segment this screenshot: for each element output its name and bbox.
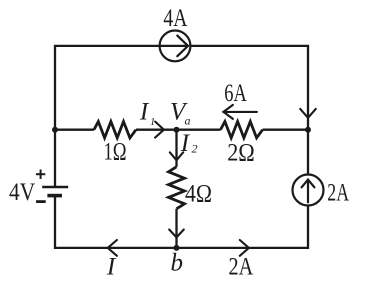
svg-text:2A: 2A <box>229 254 254 281</box>
svg-text:4A: 4A <box>163 5 187 32</box>
svg-text:2A: 2A <box>327 180 349 207</box>
svg-text:1Ω: 1Ω <box>103 138 126 165</box>
svg-text:a: a <box>185 113 191 127</box>
svg-text:6A: 6A <box>224 80 247 107</box>
svg-text:2: 2 <box>192 142 198 156</box>
svg-text:b: b <box>171 250 184 277</box>
svg-text:4Ω: 4Ω <box>185 180 212 207</box>
svg-text:I: I <box>106 254 117 281</box>
svg-text:4V: 4V <box>9 179 35 206</box>
svg-text:I: I <box>139 99 150 126</box>
svg-text:I: I <box>180 130 191 157</box>
svg-text:2Ω: 2Ω <box>227 139 255 166</box>
svg-text:1: 1 <box>150 117 155 128</box>
